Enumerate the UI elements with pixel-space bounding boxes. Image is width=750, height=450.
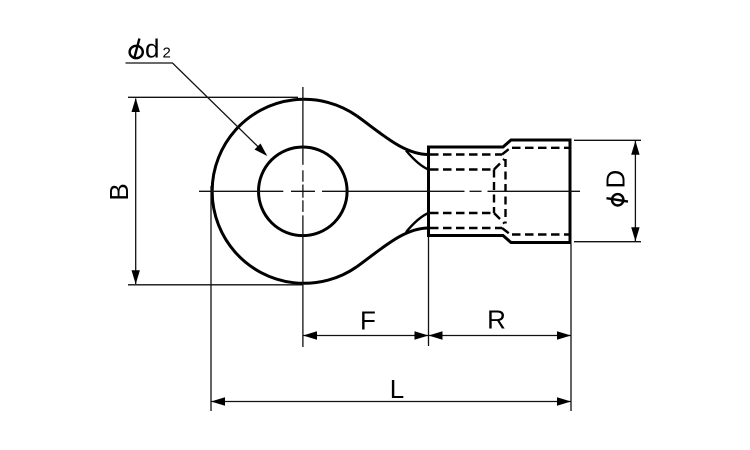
B dimension arrow down (132, 270, 140, 284)
hidden line: wire barrel bottom chamfer (494, 213, 505, 224)
B dimension line (135, 99, 137, 285)
svg-text:B: B (104, 183, 134, 200)
phiD top extension line (574, 139, 641, 141)
phi-d2 label: phi symbol drawn (circle + slanted stem) (130, 46, 143, 58)
hidden line: bore top wide (512, 147, 569, 149)
phiD dimension line (634, 141, 636, 241)
L arrow right (557, 397, 571, 405)
phiD arrow up (631, 141, 639, 155)
insulation flare arc top (406, 151, 429, 170)
hidden line: wire barrel top chamfer (494, 159, 505, 170)
B bottom extension line (128, 284, 303, 286)
vertical centerline (302, 87, 304, 347)
L arrow left (211, 397, 225, 405)
svg-text:R: R (487, 305, 506, 335)
R arrow left (429, 331, 443, 339)
hidden line: bore top chamfer (502, 148, 511, 155)
hidden line: bore bottom narrow (430, 227, 502, 229)
hidden line: bore step vertical (504, 159, 506, 224)
phi-d2 leader line (126, 63, 267, 155)
F arrow right (415, 331, 429, 339)
ring outer profile (major arc of ring + tangent S-curves to barrel) (212, 99, 428, 283)
insulation flare arc bottom (406, 213, 429, 232)
B top extension line (128, 96, 298, 98)
svg-text:F: F (360, 306, 376, 336)
F dimension line (303, 335, 429, 337)
R dimension line (429, 335, 572, 337)
barrel outline (429, 140, 571, 243)
hidden line: bore bottom wide (512, 233, 569, 235)
L dimension line (211, 401, 571, 403)
phi-d2 leader arrowhead (255, 144, 268, 157)
hidden line: wire barrel bottom (430, 212, 494, 214)
F arrow left (303, 331, 317, 339)
phiD arrow down (631, 227, 639, 241)
L left extension line (210, 186, 212, 411)
hidden line: bore bottom chamfer (502, 228, 511, 235)
F right extension line (barrel left edge extended) (428, 237, 430, 346)
horizontal centerline (199, 190, 580, 192)
hidden line: wire barrel end face vertical (493, 170, 495, 214)
hidden line: wire barrel top (430, 168, 494, 170)
svg-text:D: D (601, 170, 631, 189)
ring hole (inner circle) (259, 147, 348, 236)
hidden line: bore top narrow (430, 153, 502, 155)
svg-text:L: L (390, 374, 404, 404)
B dimension arrow up (132, 98, 140, 112)
R arrow right (557, 331, 571, 339)
right extension line (R / L) (570, 244, 572, 411)
phiD bottom extension line (574, 241, 641, 243)
